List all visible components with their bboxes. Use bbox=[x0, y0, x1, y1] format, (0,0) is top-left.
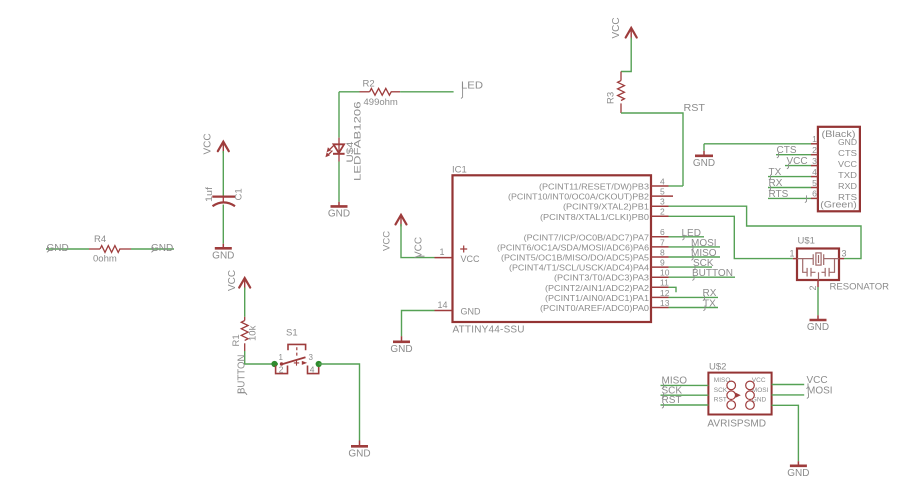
supply VCC above C1 bbox=[218, 142, 229, 152]
connector pin 3 stub bbox=[811, 165, 818, 167]
wire TX stub bbox=[768, 176, 811, 178]
svg-text:GND: GND bbox=[693, 158, 715, 169]
connector JP1 FTDI header box bbox=[818, 127, 860, 212]
svg-text:R2: R2 bbox=[363, 79, 375, 90]
connector pin 1 stub bbox=[811, 143, 818, 145]
IC1 pin 7 stub bbox=[651, 246, 669, 248]
wire R4 left to GND bbox=[46, 248, 89, 250]
LED U$4 bbox=[338, 138, 340, 162]
svg-text:RTS: RTS bbox=[769, 189, 789, 200]
svg-text:1: 1 bbox=[789, 248, 794, 258]
svg-text:1: 1 bbox=[439, 247, 444, 257]
IC1 plus mark bbox=[460, 246, 467, 253]
IC1 pin 1 stub bbox=[435, 257, 453, 259]
IC1 pin 10 stub bbox=[651, 276, 669, 278]
svg-text:(PCINT6/OC1A/SDA/MOSI/ADC6)PA6: (PCINT6/OC1A/SDA/MOSI/ADC6)PA6 bbox=[497, 242, 649, 252]
svg-text:GND: GND bbox=[212, 251, 234, 262]
resistor R1 body bbox=[241, 321, 248, 341]
capacitor C1 bbox=[212, 196, 235, 198]
svg-text:4: 4 bbox=[812, 167, 817, 177]
svg-text:CTS: CTS bbox=[777, 145, 797, 156]
svg-text:GND: GND bbox=[151, 243, 173, 254]
svg-text:5: 5 bbox=[660, 187, 665, 197]
wire VCC to IC1 pin 1 bbox=[401, 224, 435, 258]
svg-text:VCC: VCC bbox=[611, 17, 622, 38]
svg-text:GND: GND bbox=[390, 344, 412, 355]
ground at connector pin1 bbox=[703, 151, 705, 156]
svg-text:RST: RST bbox=[684, 103, 706, 114]
svg-text:VCC: VCC bbox=[203, 133, 214, 154]
svg-text:1: 1 bbox=[812, 134, 817, 144]
wire VCC to R3 bbox=[621, 38, 631, 72]
wire U$2 SCK bbox=[661, 394, 709, 396]
svg-text:MOSI: MOSI bbox=[752, 387, 769, 394]
svg-text:RTS: RTS bbox=[838, 193, 857, 202]
wire down to ground bbox=[703, 144, 705, 151]
svg-text:11: 11 bbox=[660, 278, 669, 288]
svg-text:CTS: CTS bbox=[838, 149, 857, 158]
U$2 pad circles RST/GND bbox=[727, 401, 736, 410]
svg-text:14: 14 bbox=[437, 300, 447, 310]
connector pin 6 stub bbox=[811, 197, 818, 199]
wire pin net LED bbox=[669, 236, 705, 238]
svg-text:(PCINT2/AIN1/ADC2)PA2: (PCINT2/AIN1/ADC2)PA2 bbox=[545, 283, 649, 293]
svg-text:VCC: VCC bbox=[227, 270, 238, 291]
wire VCC stub bbox=[785, 165, 811, 167]
wire R1 to switch S1 bbox=[245, 351, 278, 364]
wire resonator pin2 to GND bbox=[817, 287, 819, 315]
svg-text:3: 3 bbox=[309, 353, 314, 362]
resistor R2 right lead bbox=[391, 91, 400, 93]
svg-text:2: 2 bbox=[812, 145, 817, 155]
connector pin 4 stub bbox=[811, 176, 818, 178]
wire LED cathode to GND bbox=[338, 162, 340, 202]
svg-text:R4: R4 bbox=[94, 234, 106, 245]
svg-text:5: 5 bbox=[812, 178, 817, 188]
IC1 pin 12 stub bbox=[651, 296, 669, 298]
resistor R2 left lead bbox=[360, 91, 370, 93]
wire pin net BUTTON bbox=[669, 276, 736, 278]
svg-text:13: 13 bbox=[660, 298, 670, 308]
svg-text:RXD: RXD bbox=[838, 182, 857, 191]
connector pin 2 stub bbox=[811, 154, 818, 156]
wire U$2 GND to ground bbox=[772, 405, 799, 461]
wire pin4 to RST net bbox=[669, 185, 684, 187]
svg-text:(PCINT8/XTAL1/CLKI)PB0: (PCINT8/XTAL1/CLKI)PB0 bbox=[540, 212, 649, 222]
svg-text:3: 3 bbox=[660, 197, 665, 207]
wire R4 right to GND bbox=[131, 248, 174, 250]
resistor R4 left lead bbox=[89, 248, 100, 250]
wire U$2 MISO bbox=[661, 384, 709, 386]
wire S1 to GND bbox=[319, 364, 360, 441]
svg-text:(PCINT7/ICP/OC0B/ADC7)PA7: (PCINT7/ICP/OC0B/ADC7)PA7 bbox=[524, 232, 650, 242]
svg-text:4: 4 bbox=[660, 176, 665, 186]
supply VCC above R3 bbox=[626, 28, 637, 38]
svg-text:GND: GND bbox=[348, 449, 370, 460]
svg-text:S1: S1 bbox=[286, 328, 298, 339]
IC1 pin 5 stub bbox=[651, 195, 673, 197]
svg-text:2: 2 bbox=[808, 285, 818, 290]
U$2 pad circles SCK/MOSI bbox=[727, 391, 736, 400]
resonator U$1 box bbox=[797, 249, 839, 281]
svg-text:VCC: VCC bbox=[382, 231, 393, 251]
wire VCC to C1 top bbox=[222, 151, 224, 196]
svg-text:TXD: TXD bbox=[838, 171, 857, 180]
ground below S1 bbox=[359, 441, 361, 447]
svg-text:LED: LED bbox=[461, 81, 483, 92]
svg-text:1uf: 1uf bbox=[204, 187, 215, 202]
svg-text:6: 6 bbox=[660, 227, 665, 237]
svg-text:RST: RST bbox=[662, 395, 682, 406]
svg-text:(PCINT4/T1/SCL/USCK/ADC4)PA4: (PCINT4/T1/SCL/USCK/ADC4)PA4 bbox=[509, 263, 649, 273]
IC1 pin 13 stub bbox=[651, 307, 669, 309]
connector pin 5 stub bbox=[811, 187, 818, 189]
svg-text:GND: GND bbox=[838, 138, 857, 147]
svg-text:LEDFAB1206: LEDFAB1206 bbox=[353, 102, 364, 182]
svg-text:GND: GND bbox=[47, 243, 69, 254]
wire connector pin1 to GND bbox=[704, 143, 811, 145]
svg-text:GND: GND bbox=[461, 307, 482, 317]
wire LED top to R2 bbox=[339, 91, 360, 93]
resistor R4 body bbox=[100, 246, 120, 253]
resonator pin 2 stub bbox=[817, 280, 819, 287]
junction at S1 pin 1 bbox=[271, 361, 277, 367]
svg-text:10: 10 bbox=[660, 268, 670, 278]
svg-text:1: 1 bbox=[279, 353, 284, 362]
wire pin net TX bbox=[669, 307, 719, 309]
wire VCC to R1 bbox=[244, 288, 246, 317]
svg-text:BUTTON: BUTTON bbox=[692, 268, 733, 279]
svg-text:9: 9 bbox=[660, 258, 665, 268]
wire pin 11 short stub bbox=[669, 287, 677, 292]
IC1 pin 14 stub bbox=[435, 310, 453, 312]
svg-text:VCC: VCC bbox=[787, 156, 808, 167]
svg-text:(PCINT3/T0/ADC3)PA3: (PCINT3/T0/ADC3)PA3 bbox=[554, 273, 649, 283]
wire C1 bottom to GND bbox=[222, 205, 224, 244]
svg-text:VCC: VCC bbox=[838, 160, 857, 169]
wire R3 to IC1 pin 4 (RST) bbox=[621, 113, 683, 186]
svg-text:VCC: VCC bbox=[414, 237, 425, 258]
svg-text:RESONATOR: RESONATOR bbox=[830, 282, 890, 292]
wire RTS stub bbox=[768, 197, 811, 199]
wire IC1 pin 14 to GND bbox=[402, 311, 435, 337]
ground below LED bbox=[338, 202, 340, 207]
svg-text:3: 3 bbox=[812, 156, 817, 166]
resistor R1 bottom lead bbox=[244, 343, 246, 351]
ground below IC1 pin 14 bbox=[401, 336, 403, 342]
svg-text:(PCINT5/OC1B/MISO/DO/ADC5)PA5: (PCINT5/OC1B/MISO/DO/ADC5)PA5 bbox=[501, 253, 649, 263]
svg-text:4: 4 bbox=[310, 364, 315, 374]
svg-text:499ohm: 499ohm bbox=[364, 97, 398, 108]
resistor R3 body bbox=[618, 81, 625, 101]
wire U$2 MOSI out bbox=[772, 394, 805, 396]
resistor R3 top lead bbox=[620, 72, 622, 81]
resistor R1 top lead bbox=[244, 317, 246, 321]
ground below U$2 bbox=[797, 461, 799, 466]
resonator internal symbol bbox=[797, 258, 839, 260]
op-amp U1 IC1 ATTINY44-SSU box bbox=[453, 175, 652, 322]
svg-text:BUTTON: BUTTON bbox=[237, 355, 248, 395]
svg-text:2: 2 bbox=[279, 364, 284, 374]
svg-text:ATTINY44-SSU: ATTINY44-SSU bbox=[453, 325, 525, 336]
resistor R4 right lead bbox=[119, 248, 131, 250]
svg-text:R3: R3 bbox=[606, 92, 617, 104]
ground below C1 bbox=[222, 244, 224, 249]
svg-text:(PCINT1/AIN0/ADC1)PA1: (PCINT1/AIN0/ADC1)PA1 bbox=[545, 293, 649, 303]
wire RX stub bbox=[768, 187, 811, 189]
resistor R2 body bbox=[370, 88, 392, 95]
IC1 pin 9 stub bbox=[651, 266, 669, 268]
svg-text:U$2: U$2 bbox=[709, 362, 726, 373]
svg-text:6: 6 bbox=[812, 189, 817, 199]
supply VCC above R1 bbox=[239, 278, 250, 288]
svg-text:C1: C1 bbox=[234, 188, 245, 200]
wire down to LED anode bbox=[338, 92, 340, 138]
svg-text:IC1: IC1 bbox=[452, 165, 467, 176]
svg-text:GND: GND bbox=[807, 322, 829, 333]
programming header U$2 AVRISPSMD box bbox=[708, 373, 771, 415]
svg-text:AVRISPSMD: AVRISPSMD bbox=[707, 418, 766, 430]
IC1 pin 11 stub bbox=[651, 286, 669, 288]
wire U$2 VCC out bbox=[772, 384, 805, 386]
IC1 pin 3 stub bbox=[651, 205, 669, 207]
wire U$2 RST bbox=[661, 404, 709, 406]
svg-text:MOSI: MOSI bbox=[807, 385, 833, 396]
U$2 pin1 arrow bbox=[736, 393, 741, 398]
resonator pin 3 stub bbox=[839, 258, 844, 260]
svg-text:(PCINT10/INT0/OC0A/CKOUT)PB2: (PCINT10/INT0/OC0A/CKOUT)PB2 bbox=[508, 192, 649, 202]
svg-text:10k: 10k bbox=[248, 325, 259, 341]
svg-text:R1: R1 bbox=[231, 334, 242, 346]
svg-text:12: 12 bbox=[660, 288, 670, 298]
wire pin net MISO bbox=[669, 256, 721, 258]
IC1 pin 8 stub bbox=[651, 256, 669, 258]
switch S1 bbox=[288, 344, 306, 350]
svg-text:7: 7 bbox=[660, 237, 665, 247]
svg-text:2: 2 bbox=[660, 207, 665, 217]
IC1 pin 2 stub bbox=[651, 215, 669, 217]
wire R2 to LED net label bbox=[400, 91, 454, 93]
wire pin net MOSI bbox=[669, 246, 721, 248]
supply VCC at IC1 pin 1 bbox=[396, 215, 407, 225]
svg-text:(PCINT0/AREF/ADC0)PA0: (PCINT0/AREF/ADC0)PA0 bbox=[540, 303, 649, 313]
svg-text:3: 3 bbox=[842, 248, 847, 258]
svg-text:VCC: VCC bbox=[461, 254, 481, 264]
wire pin2 PB0 to resonator pin1 bbox=[669, 216, 793, 258]
svg-text:GND: GND bbox=[328, 209, 350, 220]
svg-text:0ohm: 0ohm bbox=[93, 254, 117, 265]
svg-text:SCK: SCK bbox=[714, 387, 728, 394]
ground below resonator bbox=[817, 315, 819, 320]
junction at S1 pin 3 bbox=[316, 361, 322, 367]
resistor R3 bottom lead bbox=[620, 103, 622, 113]
svg-text:RST: RST bbox=[714, 397, 727, 404]
IC1 pin 4 stub bbox=[651, 185, 669, 187]
svg-text:8: 8 bbox=[660, 247, 665, 257]
wire pin3 PB1 to resonator pin3 bbox=[669, 206, 862, 258]
svg-text:(PCINT9/XTAL2)PB1: (PCINT9/XTAL2)PB1 bbox=[563, 202, 649, 212]
wire CTS stub bbox=[776, 154, 811, 156]
wire pin net RX bbox=[669, 296, 719, 298]
svg-text:(PCINT11/RESET/DW)PB3: (PCINT11/RESET/DW)PB3 bbox=[539, 182, 649, 192]
wire pin net SCK bbox=[669, 266, 713, 268]
IC1 pin 6 stub bbox=[651, 236, 669, 238]
svg-text:GND: GND bbox=[787, 468, 809, 479]
resonator pin 1 stub bbox=[793, 258, 797, 260]
U$2 pad circles MISO/VCC bbox=[727, 381, 736, 390]
svg-text:U$1: U$1 bbox=[798, 236, 815, 247]
